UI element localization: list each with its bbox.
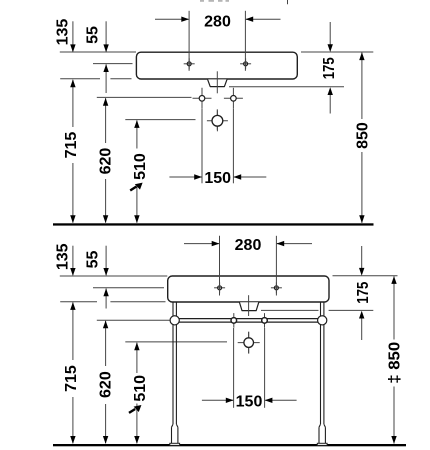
svg-text:175: 175 (355, 282, 372, 304)
svg-text:715: 715 (63, 132, 80, 159)
svg-text:280: 280 (204, 14, 231, 31)
svg-text:850: 850 (355, 122, 372, 149)
svg-text:‡ 850: ‡ 850 (387, 342, 404, 384)
svg-text:135: 135 (55, 243, 72, 270)
svg-text:135: 135 (55, 19, 72, 46)
svg-text:55: 55 (85, 26, 102, 44)
svg-text:150: 150 (236, 394, 263, 411)
svg-text:175: 175 (321, 57, 338, 79)
svg-text:150: 150 (204, 170, 231, 187)
svg-text:510: 510 (132, 375, 149, 402)
svg-text:280: 280 (235, 237, 262, 254)
svg-text:620: 620 (97, 371, 114, 398)
svg-text:510: 510 (132, 153, 149, 180)
svg-text:55: 55 (85, 251, 102, 269)
svg-text:620: 620 (98, 148, 115, 175)
svg-text:715: 715 (63, 365, 80, 392)
